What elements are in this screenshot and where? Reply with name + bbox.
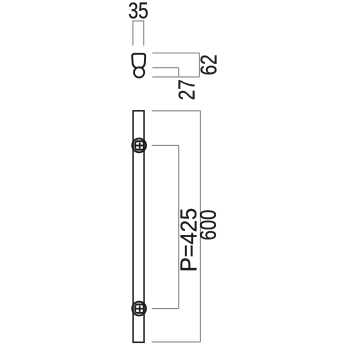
bracket plate [135,304,144,313]
extension lines (top view) [152,53,199,77]
handle bar [133,111,144,342]
dim line 600 [199,111,201,342]
top mount [132,139,146,153]
bar section circle [134,67,144,77]
bottom mount [132,302,146,316]
screw cross [136,142,144,148]
dim line P=425 [178,145,180,308]
flange circle [132,139,146,153]
bracket plate [135,141,144,150]
dim line 62 [198,53,200,77]
flange circle [132,302,146,316]
extension lines (front view) [152,111,201,342]
svg-text:62: 62 [196,54,222,75]
dim bracket 35 [133,21,144,46]
mount base (bell shape) [132,54,145,69]
svg-text:35: 35 [128,0,148,23]
screw cross [136,306,144,312]
svg-text:600: 600 [195,210,221,241]
dim line 27 [178,68,180,77]
svg-text:27: 27 [174,79,200,100]
